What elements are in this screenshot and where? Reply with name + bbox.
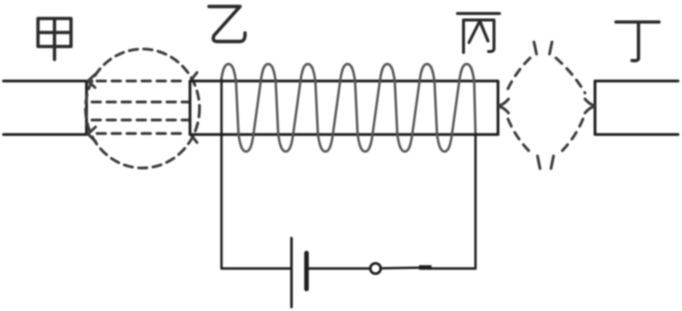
field line row 1 (dashed) bbox=[97, 80, 187, 83]
arrow ticks at 丙 right edge bbox=[500, 99, 509, 113]
switch contact (thick) bbox=[419, 265, 432, 270]
arrowhead row1 left bbox=[88, 74, 96, 88]
wire: right lead down from coil bbox=[474, 134, 476, 269]
field line row 4 (dashed) bbox=[97, 132, 187, 135]
dashed flux diamond: bottom gap dashes bbox=[538, 156, 554, 169]
switch lever bbox=[381, 267, 419, 270]
iron bar 甲 bbox=[4, 81, 87, 135]
wire: battery to switch bbox=[308, 267, 370, 269]
arrowhead row4 left bbox=[88, 127, 96, 142]
label 丙 (right end of core) bbox=[458, 14, 500, 53]
battery short plate bbox=[304, 253, 309, 289]
field line row 3 (dashed) bbox=[92, 119, 189, 122]
dashed flux diamond: lower-left curve bbox=[508, 119, 530, 152]
label 乙 (left end of core) bbox=[209, 7, 245, 42]
wire: bottom left horizontal bbox=[222, 267, 291, 269]
coil core bar 乙丙 bbox=[190, 81, 498, 135]
dashed flux diamond: lower-right curve bbox=[561, 119, 583, 152]
dashed flux diamond: top gap dashes bbox=[534, 42, 552, 54]
coil winding L bbox=[221, 64, 476, 152]
iron bar 丁 bbox=[595, 81, 678, 135]
wire: left lead down from coil bbox=[220, 80, 222, 269]
dashed field ellipse between 甲 and 乙 bbox=[86, 49, 200, 168]
battery long plate bbox=[290, 238, 293, 307]
label 甲 (rod A) bbox=[38, 19, 71, 60]
dashed flux diamond: upper-left curve bbox=[506, 58, 530, 93]
arrowhead row1 right bbox=[190, 73, 197, 82]
arrowhead row4 right bbox=[190, 134, 197, 143]
dashed flux diamond: upper-right curve bbox=[556, 58, 585, 93]
label 丁 (rod D) bbox=[616, 22, 659, 61]
arrow ticks at 丁 left edge bbox=[585, 99, 594, 113]
field line row 2 (dashed) bbox=[92, 101, 189, 104]
switch pivot circle bbox=[370, 263, 380, 273]
wire: switch to right lead bbox=[432, 267, 476, 269]
